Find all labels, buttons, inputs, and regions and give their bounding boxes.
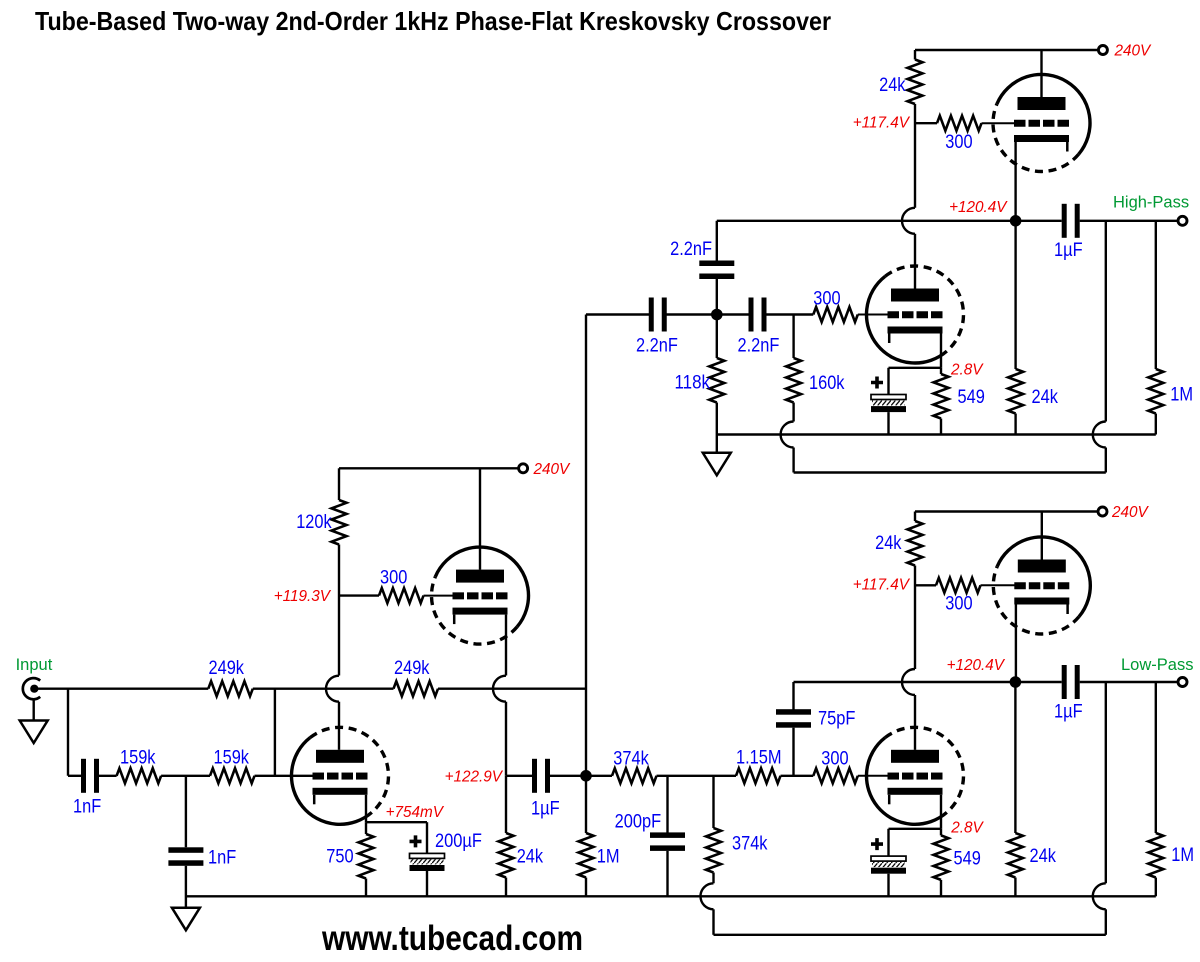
svg-text:2.2nF: 2.2nF — [738, 335, 780, 357]
svg-text:300: 300 — [945, 131, 972, 153]
svg-text:159k: 159k — [214, 747, 250, 769]
svg-text:Tube-Based Two-way 2nd-Order 1: Tube-Based Two-way 2nd-Order 1kHz Phase-… — [35, 6, 831, 36]
wire 1nF shunt drop — [185, 776, 187, 848]
wire — [914, 234, 916, 289]
wire — [666, 851, 668, 896]
triode V6 low-pass — [866, 727, 963, 824]
wire — [887, 829, 889, 856]
wire — [438, 688, 586, 690]
capacitor 1nF shunt — [168, 847, 203, 866]
wire — [1105, 448, 1107, 473]
wire 75pF riser — [792, 682, 794, 710]
capacitor electrolytic cathode bypass low-pass — [871, 856, 906, 874]
svg-text:118k: 118k — [675, 372, 711, 394]
svg-text:1nF: 1nF — [208, 847, 236, 869]
svg-text:+117.4V: +117.4V — [853, 115, 911, 132]
resistor 120k plate load — [332, 500, 347, 545]
resistor 549 cathode V2 — [934, 374, 949, 419]
wire main ground rail — [186, 895, 1156, 897]
wire — [98, 775, 117, 777]
capacitor 1nF series — [81, 759, 99, 793]
wire — [1155, 682, 1157, 833]
junction cathode node — [1010, 215, 1022, 227]
svg-text:549: 549 — [958, 386, 985, 408]
wire — [940, 419, 942, 435]
capacitor 2.2nF series top — [699, 261, 734, 280]
wire grid node — [915, 584, 936, 586]
junction cathode node low-pass — [1010, 676, 1022, 688]
resistor 118k shunt high-pass — [709, 358, 724, 403]
capacitor 2.2nF input — [649, 298, 667, 332]
svg-text:www.tubecad.com: www.tubecad.com — [321, 918, 583, 958]
wire plate lead V1 — [1040, 50, 1042, 97]
wire 118k drop — [716, 315, 718, 359]
terminal 240V low-pass — [1098, 507, 1107, 516]
wire — [1080, 681, 1179, 683]
svg-text:1µF: 1µF — [1054, 239, 1083, 261]
terminal 240V high-pass — [1098, 46, 1107, 55]
svg-text:24k: 24k — [879, 74, 906, 96]
wire — [253, 688, 394, 690]
wire plate lead V5 — [1041, 512, 1043, 560]
wire — [338, 468, 340, 500]
svg-text:374k: 374k — [613, 748, 649, 770]
wire ground rail high-pass — [717, 433, 1156, 435]
wire bootstrap riser low-pass — [1105, 682, 1107, 883]
wire — [505, 878, 507, 897]
svg-text:24k: 24k — [875, 532, 902, 554]
resistor 1M output bleeder low-pass — [1148, 833, 1163, 878]
svg-text:Input: Input — [16, 656, 53, 674]
wire grid row high-pass — [586, 313, 649, 315]
wire — [982, 122, 1017, 124]
wire — [792, 728, 794, 776]
wire — [712, 873, 714, 884]
wire input row — [36, 688, 208, 690]
resistor 24k cathode load V3 — [499, 833, 514, 878]
polarity + mark low-pass — [871, 838, 883, 850]
wire bootstrap rail high-pass — [794, 471, 1106, 473]
wire 374k shunt drop — [712, 776, 714, 828]
wire — [666, 313, 749, 315]
svg-text:2.2nF: 2.2nF — [636, 335, 678, 357]
resistor 24k cathode load low-pass — [1008, 833, 1023, 878]
svg-text:200µF: 200µF — [435, 830, 482, 852]
polarity + mark — [871, 377, 883, 389]
resistor 24k plate load low-pass — [908, 521, 923, 566]
wire filter feed riser — [585, 315, 587, 776]
wire B+ rail high-pass — [915, 49, 1099, 51]
wire — [940, 880, 942, 896]
wire — [1080, 220, 1179, 222]
resistor 1.15M series low-pass — [736, 768, 781, 783]
wire bootstrap riser — [1105, 221, 1107, 422]
wire grid node — [915, 122, 937, 124]
triode V2 high-pass — [866, 266, 963, 363]
wire — [1014, 878, 1016, 897]
wire — [1105, 909, 1107, 935]
svg-text:1µF: 1µF — [1054, 701, 1083, 723]
wire — [161, 775, 210, 777]
svg-text:374k: 374k — [732, 833, 768, 855]
wire — [716, 403, 718, 435]
triode V4 input — [291, 727, 388, 824]
svg-text:+122.9V: +122.9V — [445, 769, 504, 786]
capacitor 200pF shunt — [650, 832, 685, 851]
svg-text:+120.4V: +120.4V — [947, 657, 1006, 674]
svg-text:750: 750 — [326, 846, 353, 868]
wire hop over ground rail — [1093, 422, 1106, 448]
wire plate lead V6 — [914, 749, 916, 752]
resistor 300 grid stopper — [937, 116, 982, 131]
terminal High-Pass output — [1178, 216, 1187, 225]
wire hop plate line over input row — [326, 676, 339, 702]
capacitor 1µF coupling — [532, 759, 550, 793]
wire plate node — [339, 594, 379, 596]
wire — [657, 775, 737, 777]
wire — [1155, 221, 1157, 369]
svg-text:+119.3V: +119.3V — [274, 588, 332, 605]
capacitor 1µF output high-pass — [1062, 204, 1080, 238]
terminal input jack — [23, 678, 40, 699]
wire 200pF drop — [666, 776, 668, 833]
wire output node high-pass — [717, 220, 1062, 222]
junction output node first stage — [580, 770, 592, 782]
resistor 300 grid stopper V5 — [936, 578, 981, 593]
wire — [1014, 226, 1016, 369]
wire — [1155, 878, 1157, 897]
capacitor 2.2nF second — [749, 298, 767, 332]
terminal Low-Pass output — [1178, 678, 1187, 687]
resistor 159k second — [210, 768, 255, 783]
capacitor electrolytic 200µF — [410, 853, 445, 871]
svg-text:+117.4V: +117.4V — [853, 576, 911, 593]
wire hop cathode over input row — [493, 676, 506, 702]
wire plate lead V2 — [914, 287, 916, 290]
resistor 549 cathode V6 — [934, 835, 949, 880]
resistor 300 grid stopper V2 — [813, 307, 858, 322]
wire — [1155, 414, 1157, 435]
svg-text:200pF: 200pF — [615, 811, 662, 833]
wire — [940, 368, 942, 374]
ground input jack — [20, 721, 48, 744]
wire — [365, 822, 367, 834]
wire — [914, 512, 916, 522]
wire B+ rail first stage — [339, 467, 520, 469]
junction 2.2nF node — [711, 309, 723, 321]
wire 159k row — [68, 775, 82, 777]
wire — [426, 871, 428, 896]
wire — [33, 699, 35, 720]
svg-text:1M: 1M — [597, 846, 620, 868]
svg-text:300: 300 — [380, 567, 407, 589]
svg-text:+120.4V: +120.4V — [949, 199, 1008, 216]
capacitor electrolytic cathode bypass high-pass — [871, 395, 906, 413]
terminal 240V first stage — [519, 464, 528, 473]
wire +122.9V node — [506, 775, 532, 777]
capacitor 1µF output low-pass — [1062, 665, 1080, 699]
wire — [981, 584, 1017, 586]
resistor 24k cathode load high-pass — [1008, 369, 1023, 414]
svg-text:159k: 159k — [120, 747, 156, 769]
wire hop over output low-pass — [902, 669, 915, 695]
resistor 1M bleeder first stage — [579, 833, 594, 878]
wire — [185, 866, 187, 908]
wire cathode lead V5 — [1015, 605, 1017, 683]
polarity + mark 200µF — [410, 835, 422, 847]
wire — [887, 368, 889, 395]
svg-text:+754mV: +754mV — [386, 804, 445, 821]
wire grid row low-pass — [591, 775, 612, 777]
wire — [781, 775, 814, 777]
wire cathode jog low-pass — [889, 828, 942, 830]
wire branch to 1nF leg — [67, 689, 69, 776]
resistor 300 grid stopper V6 — [813, 768, 858, 783]
wire — [914, 50, 916, 60]
svg-text:2.8V: 2.8V — [950, 362, 984, 379]
wire — [585, 878, 587, 897]
wire — [338, 545, 340, 676]
svg-text:120k: 120k — [296, 511, 332, 533]
wire cathode lead V6 — [940, 795, 942, 829]
ground high-pass — [703, 453, 731, 476]
svg-text:249k: 249k — [394, 657, 430, 679]
wire — [858, 314, 890, 316]
svg-text:300: 300 — [821, 748, 848, 770]
wire hop over output — [902, 208, 915, 234]
svg-text:1M: 1M — [1171, 844, 1194, 866]
svg-text:2.2nF: 2.2nF — [670, 238, 712, 260]
capacitor 75pF feedback — [776, 709, 811, 728]
wire 160k drop — [792, 315, 794, 359]
wire output node low-pass — [794, 681, 1062, 683]
resistor 160k grid leak high-pass — [786, 358, 801, 403]
wire — [424, 595, 456, 597]
triode V3 cathode follower — [432, 547, 529, 644]
wire hop 160k over ground rail — [781, 422, 794, 448]
svg-text:24k: 24k — [1030, 845, 1057, 867]
svg-text:240V: 240V — [533, 461, 572, 478]
svg-text:24k: 24k — [1032, 386, 1059, 408]
svg-text:1.15M: 1.15M — [736, 747, 782, 769]
resistor 1M output bleeder high-pass — [1148, 369, 1163, 414]
wire — [1014, 687, 1016, 833]
wire — [716, 435, 718, 453]
svg-text:240V: 240V — [1114, 43, 1153, 60]
wire — [887, 874, 889, 897]
triode V1 high-pass cathode follower — [993, 74, 1090, 171]
wire plate lead V3 — [479, 468, 481, 569]
svg-text:Low-Pass: Low-Pass — [1121, 656, 1193, 674]
wire — [1014, 414, 1016, 435]
wire — [914, 695, 916, 750]
wire branch to low-pass leg — [274, 689, 276, 776]
wire — [550, 775, 591, 777]
wire — [338, 702, 340, 750]
junction input jack tip — [30, 685, 38, 693]
svg-text:249k: 249k — [209, 657, 245, 679]
wire — [585, 781, 587, 833]
wire cathode lead V2 — [940, 334, 942, 368]
wire B+ rail low-pass — [915, 510, 1099, 512]
wire — [858, 775, 890, 777]
wire — [426, 822, 428, 853]
wire cathode lead V3 — [505, 615, 507, 676]
wire cathode lead V1 — [1014, 142, 1016, 221]
resistor 249k input series — [208, 681, 253, 696]
wire cathode jog V4 — [366, 821, 427, 823]
svg-text:1nF: 1nF — [73, 796, 101, 818]
resistor 159k first — [117, 768, 162, 783]
svg-text:2.8V: 2.8V — [950, 820, 984, 837]
wire — [505, 776, 507, 833]
svg-text:300: 300 — [813, 288, 840, 310]
svg-text:75pF: 75pF — [818, 708, 856, 730]
wire — [792, 448, 794, 473]
resistor 750 cathode — [359, 834, 374, 879]
svg-text:1µF: 1µF — [531, 798, 560, 820]
wire — [914, 566, 916, 670]
wire — [716, 221, 718, 261]
wire — [255, 775, 314, 777]
wire — [914, 104, 916, 208]
resistor 249k feedback series — [394, 681, 439, 696]
ground main — [172, 908, 200, 931]
wire cathode lead V4 — [365, 795, 367, 822]
wire — [365, 879, 367, 897]
svg-text:24k: 24k — [517, 846, 544, 868]
wire — [940, 829, 942, 836]
svg-text:240V: 240V — [1111, 504, 1150, 521]
svg-text:300: 300 — [945, 593, 972, 615]
svg-text:160k: 160k — [809, 372, 845, 394]
svg-text:1M: 1M — [1170, 384, 1193, 406]
resistor 300 grid stopper V3 — [379, 588, 424, 603]
resistor 24k plate load high-pass — [908, 60, 923, 105]
svg-text:549: 549 — [954, 848, 981, 870]
wire hop 374k over ground rail — [701, 883, 714, 909]
wire — [712, 909, 714, 935]
wire — [792, 403, 794, 422]
wire — [887, 412, 889, 434]
wire hop over ground rail low-pass — [1093, 883, 1106, 909]
triode V5 low-pass cathode follower — [993, 537, 1090, 634]
svg-text:High-Pass: High-Pass — [1113, 194, 1189, 212]
wire cathode jog — [889, 367, 942, 369]
resistor 374k series low-pass — [612, 768, 657, 783]
resistor 374k grid leak low-pass — [706, 828, 721, 873]
wire bootstrap rail low-pass — [714, 934, 1106, 936]
wire — [505, 702, 507, 776]
wire — [716, 279, 718, 315]
wire — [766, 313, 813, 315]
